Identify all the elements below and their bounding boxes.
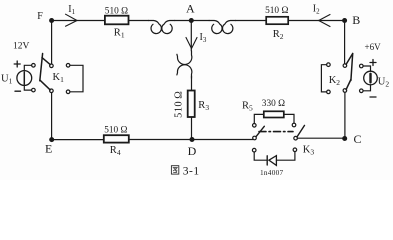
source U1 terminal top (32, 64, 36, 68)
wire R5 branch right (284, 114, 294, 123)
resistor R5 (264, 111, 284, 117)
wire A down with I3 arrow (190, 21, 192, 51)
wire diode branch left (254, 152, 267, 160)
resistor R1 (105, 16, 129, 25)
switch K3 right blade (297, 125, 305, 136)
svg-text:F: F (37, 11, 43, 22)
plus sign U1 (14, 61, 20, 67)
svg-text:12V: 12V (13, 41, 30, 51)
svg-text:3-1: 3-1 (183, 166, 200, 178)
switch K1 gang bar (40, 54, 43, 81)
svg-text:510Ω: 510Ω (104, 126, 127, 136)
current arrow I1 (66, 14, 78, 26)
diode D1 1n4007 cathode bar (266, 156, 268, 165)
left vertical wire F to K1 (51, 21, 53, 65)
source U1 circle (17, 71, 32, 86)
wire R4 to node D (bottom) (129, 139, 192, 141)
wire break to R3 (vertical) (191, 76, 193, 91)
current arrow I2 (319, 15, 330, 27)
R5 branch terminal left (253, 124, 257, 128)
svg-text:+6V: +6V (365, 42, 382, 52)
wire U2 top lead (363, 66, 370, 71)
break gap right of node A (209, 21, 222, 34)
node F (49, 18, 54, 23)
source U2 terminal bottom (360, 89, 364, 93)
diode branch terminal right (293, 148, 297, 152)
source U2 terminal top (360, 64, 364, 68)
wire D to K3 (bottom) (192, 139, 253, 141)
svg-text:A: A (186, 1, 195, 15)
wire E to R4 (bottom) (52, 139, 104, 141)
break gap below A (vertical) (177, 51, 192, 65)
K2 left throw shorting bracket (321, 65, 326, 92)
node B (342, 18, 347, 23)
wire U1 bottom lead (24, 86, 31, 91)
wire R2 to node B (top) (288, 20, 344, 22)
svg-text:510Ω: 510Ω (265, 6, 288, 16)
svg-text:1n4007: 1n4007 (260, 168, 283, 177)
current arrow I3 (186, 38, 197, 49)
switch K2 blade top (346, 54, 353, 65)
K1 right throw terminal top (66, 64, 70, 68)
plus sign U2 (370, 60, 376, 66)
switch K2 gang bar (351, 54, 353, 81)
switch K1 pivot bottom contact (50, 89, 54, 93)
node A (189, 18, 194, 23)
K2 left throw terminal bottom (327, 90, 331, 94)
svg-text:510Ω: 510Ω (105, 7, 128, 17)
node D (190, 137, 195, 142)
left vertical wire K1 to E (51, 93, 53, 140)
source U1 terminal bottom (32, 88, 36, 92)
svg-text:E: E (45, 142, 52, 156)
right vertical wire B to K2 (344, 21, 346, 64)
svg-text:D: D (188, 144, 197, 158)
wire R1 to break (top) (129, 20, 149, 22)
switch K3 left blade (256, 126, 264, 136)
svg-text:B: B (352, 13, 360, 27)
switch K2 pivot bottom contact (343, 89, 347, 93)
right vertical wire K2 to C (344, 92, 346, 138)
caption figure 3-1 (171, 166, 199, 178)
resistor R4 (104, 135, 129, 142)
wire break to node A (top) (175, 20, 210, 22)
minus sign U2 (370, 96, 376, 98)
switch K1 pivot top contact (50, 64, 54, 68)
svg-text:C: C (354, 132, 362, 146)
K1 right throw shorting bracket (70, 65, 83, 92)
wire break to R2 (top) (235, 20, 266, 22)
wire K3 to node C (bottom) (297, 137, 344, 139)
switch K3 left contact (253, 136, 257, 140)
switch K1 blade top (42, 58, 50, 65)
break gap left of node A (148, 21, 161, 34)
caption glyph tu (figure) (171, 166, 178, 174)
svg-text:330Ω: 330Ω (262, 99, 285, 109)
resistor R2 (266, 17, 288, 24)
minus sign U1 (15, 90, 21, 92)
source U2 circle (364, 71, 378, 85)
wire R5 branch left (254, 114, 263, 123)
node E (49, 137, 54, 142)
switch K2 pivot top contact (343, 64, 347, 68)
diode D1 1n4007 triangle (269, 156, 277, 166)
switch K3 right contact (294, 136, 298, 140)
source U1 inner bar (23, 72, 25, 84)
diode branch terminal left (252, 148, 256, 152)
wire U1 top lead (24, 65, 31, 70)
wire diode branch right (276, 152, 295, 161)
switch K2 blade bottom (346, 80, 351, 90)
K2 left throw terminal top (327, 63, 331, 67)
switch K3 gang link (dashed) (259, 131, 293, 133)
source U2 inner bar (369, 74, 371, 83)
K1 right throw terminal bottom (66, 90, 70, 94)
wire R3 to node D (191, 117, 193, 140)
svg-text:510Ω: 510Ω (173, 91, 184, 118)
node C (342, 136, 347, 141)
resistor R3 (188, 91, 195, 118)
switch K1 blade bottom (40, 80, 50, 90)
wire F to R1 (top) (52, 20, 105, 22)
R5 branch terminal right (292, 123, 296, 127)
wire U2 bottom lead (363, 85, 370, 91)
